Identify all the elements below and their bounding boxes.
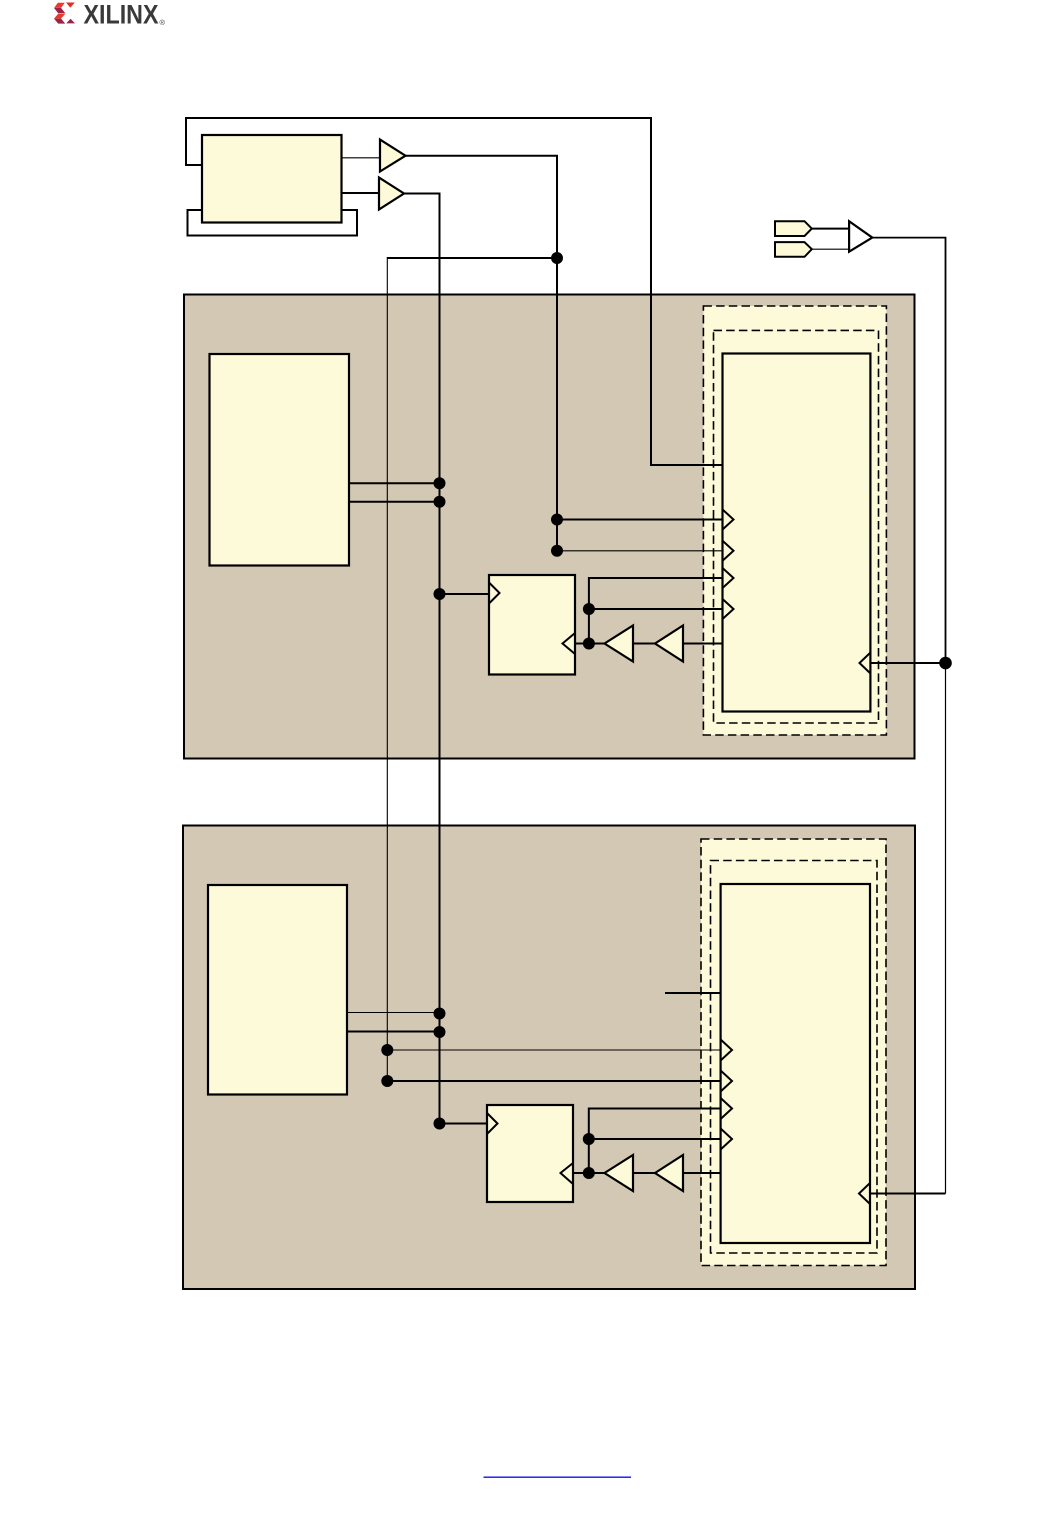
wire: FPGA2 block chevron line 2 — [387, 1080, 721, 1082]
wire: pad1 to input buffer — [812, 228, 849, 230]
clock input pad 2 — [775, 242, 812, 257]
wire: FPGA2 pair line 2 — [348, 1031, 440, 1033]
pin marker: DCM U4 clock input chevron — [489, 583, 500, 604]
wire: net A branch horizontal at y258 — [387, 257, 557, 259]
buffer U6A (left pointing) — [605, 626, 634, 662]
pin marker: FPGA1 block chevron 3 — [722, 568, 734, 589]
wire: pad2 to input buffer — [812, 248, 849, 250]
junction dot FPGA2 DCM input — [434, 1118, 446, 1130]
junction dot FPGA2 pair line 1 — [434, 1008, 446, 1020]
svg-text:XILINX: XILINX — [84, 0, 159, 29]
pin marker: DCM U7 clock input chevron — [487, 1113, 498, 1134]
wire: FPGA1 pair line 2 — [350, 501, 440, 503]
pin marker: FPGA2 block chevron 2 — [721, 1071, 732, 1092]
pin marker: FPGA1 block chevron 4 — [722, 599, 734, 620]
FPGA1 logic block U2 — [723, 354, 871, 712]
FPGA1 logic array block (left yellow) — [210, 354, 350, 566]
clock source outline box (top left) — [188, 210, 358, 236]
FPGA2 clock region inner dashed boundary — [711, 861, 878, 1254]
wire: FPGA1 block chevron line 4 — [589, 608, 722, 610]
wire: FPGA2 block chevron line 4 — [589, 1138, 721, 1140]
wire: branch into FPGA1 block right pin — [871, 662, 946, 664]
hyperlink underline at page bottom — [484, 1477, 632, 1478]
input buffer U3 (white) — [849, 221, 872, 252]
buffer U8A (left pointing) — [605, 1155, 634, 1191]
wire: net A branch vertical down to FPGA2 — [386, 257, 388, 1081]
pin marker: FPGA1 block chevron 1 — [722, 509, 734, 530]
wire: feedback from clock source box left around top to FPGA1 block — [186, 118, 722, 465]
FPGA2 logic array block (left yellow) — [208, 885, 347, 1095]
wire: FPGA2 DCM input — [440, 1123, 488, 1125]
clock input pad 1 — [775, 221, 812, 236]
junction dot net B pair line 2 — [434, 496, 446, 508]
junction dot net A at y258 — [551, 252, 563, 264]
buffer U1A (top) — [380, 140, 406, 172]
junction dot FPGA1 chevron line 4 — [583, 603, 595, 615]
junction dot FPGA1 DCM feedback — [583, 638, 595, 650]
pin marker: FPGA2 block chevron 3 — [721, 1098, 732, 1119]
wire: FPGA1 DCM feedback through buffers — [575, 643, 605, 645]
junction dot FPGA2 pair line 2 — [434, 1026, 446, 1038]
buffer U6B (left pointing) — [655, 626, 683, 662]
FPGA2 logic block U5 — [721, 884, 870, 1243]
FPGA1 clock region inner dashed boundary — [714, 330, 879, 723]
wire: FPGA2 block chevron line 1 — [387, 1049, 721, 1051]
junction dot FPGA2 net A line 1 — [381, 1044, 393, 1056]
xilinx logo mark — [54, 3, 75, 24]
wire: global clock net from U3 down right side to both FPGAs — [872, 238, 945, 663]
wire: between buffers U8A U8B — [633, 1172, 655, 1174]
pin marker: FPGA1 block chevron 2 — [722, 540, 734, 561]
wire: into FPGA2 block right pin — [870, 1193, 946, 1195]
wire: FPGA1 block chevron line 2 — [557, 550, 722, 552]
junction dot global clock FPGA1 branch — [939, 657, 952, 670]
pin marker: FPGA1 block right input chevron — [860, 653, 871, 674]
junction dot net A chevron line 1 — [551, 514, 563, 526]
wire: FPGA2 block chevron line 3 with corner — [589, 1109, 721, 1174]
wire: FPGA1 pair line 1 — [350, 482, 440, 484]
wire: FPGA1 DCM input — [440, 593, 490, 595]
junction dot FPGA2 chevron line 4 — [583, 1133, 595, 1145]
pin marker: FPGA2 block chevron 1 — [721, 1040, 732, 1061]
buffer U8B (left pointing) — [655, 1155, 683, 1191]
pin marker: DCM U4 feedback input chevron (right edge) — [563, 633, 576, 654]
clock generator box U1 (top left yellow) — [202, 135, 342, 223]
wire: net A from buffer U1A right then down into FPGA1 — [406, 156, 558, 551]
wire: U1 output 2 to buffer — [342, 192, 379, 194]
wire: net B from buffer U1B right then down through both FPGAs — [404, 194, 440, 1125]
junction dot FPGA2 DCM feedback — [583, 1167, 595, 1179]
junction dot net A chevron line 2 — [551, 545, 563, 557]
pin marker: FPGA2 block chevron 4 — [721, 1129, 732, 1150]
junction dot FPGA2 net A line 2 — [381, 1075, 393, 1087]
wire: buffer U6B to FPGA1 block — [683, 643, 722, 645]
wire: dangling stub into FPGA2 block — [665, 992, 721, 994]
wire: FPGA2 DCM feedback through buffers — [573, 1172, 605, 1174]
FPGA 1 outline (tan box) — [184, 295, 915, 759]
pin marker: DCM U7 feedback input chevron (right edge) — [561, 1163, 574, 1184]
FPGA1 clock region outer dashed boundary — [703, 306, 886, 735]
wire: FPGA1 block chevron line 1 — [557, 519, 722, 521]
wire: global clock net lower segment — [945, 663, 947, 1194]
svg-text:®: ® — [160, 18, 166, 27]
FPGA 2 outline (tan box) — [183, 826, 915, 1290]
wire: between buffers U6A U6B — [633, 643, 655, 645]
buffer U1B (bottom) — [379, 178, 404, 210]
DCM U4 of FPGA1 — [489, 575, 575, 675]
wire: FPGA2 pair line 1 — [348, 1012, 440, 1014]
DCM U7 of FPGA2 — [487, 1105, 573, 1202]
junction dot net B DCM1 input — [434, 588, 446, 600]
wire: buffer U8B to FPGA2 block — [683, 1172, 721, 1174]
wire: U1 output 1 to buffer — [342, 157, 380, 159]
junction dot net B pair line 1 — [434, 477, 446, 489]
wire: FPGA1 block chevron line 3 with corner — [589, 578, 722, 644]
FPGA2 clock region outer dashed boundary — [701, 839, 886, 1266]
pin marker: FPGA2 block right input chevron — [859, 1183, 870, 1204]
